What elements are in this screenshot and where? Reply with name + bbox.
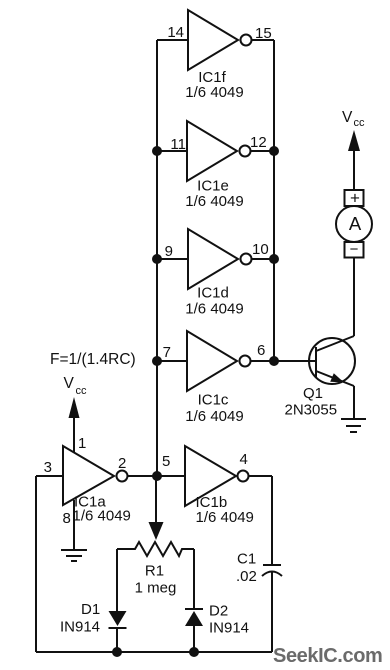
wire IC1b output down to C1 — [271, 476, 273, 565]
node input IC1c — [152, 356, 162, 366]
node input IC1d — [152, 254, 162, 264]
power Vcc at IC1a pin 1 — [64, 375, 88, 452]
node output IC1d — [269, 254, 279, 264]
svg-text:SeekIC.com: SeekIC.com — [273, 645, 382, 667]
wire Q1 collector up to motor — [353, 258, 355, 337]
svg-text:D2: D2 — [209, 603, 228, 620]
wire R1 right to D2 — [193, 549, 195, 609]
motor / ammeter A with + and - terminals — [336, 189, 372, 259]
svg-text:.02: .02 — [236, 568, 257, 585]
ground below Q1 — [341, 419, 366, 432]
svg-text:R1: R1 — [145, 563, 164, 580]
svg-text:10: 10 — [252, 241, 269, 258]
svg-text:4: 4 — [240, 451, 248, 468]
svg-text:IN914: IN914 — [60, 619, 100, 636]
wire R1 left to D1 — [116, 549, 118, 611]
svg-text:14: 14 — [167, 24, 184, 41]
svg-text:12: 12 — [250, 134, 267, 151]
capacitor C1 — [236, 551, 282, 586]
svg-text:9: 9 — [165, 243, 173, 260]
svg-text:F=1/(1.4RC): F=1/(1.4RC) — [50, 351, 136, 368]
svg-text:1 meg: 1 meg — [135, 580, 177, 597]
inverter IC1e — [157, 121, 274, 210]
svg-text:1/6 4049: 1/6 4049 — [196, 509, 254, 526]
svg-text:1/6 4049: 1/6 4049 — [185, 193, 243, 210]
svg-text:+: + — [350, 189, 360, 208]
svg-text:11: 11 — [170, 136, 186, 153]
svg-text:V: V — [64, 375, 75, 392]
inverter IC1b — [157, 446, 272, 526]
svg-text:15: 15 — [255, 25, 272, 42]
transistor Q1 — [285, 336, 356, 419]
inverter IC1a — [36, 435, 157, 527]
svg-text:IN914: IN914 — [209, 620, 249, 637]
diode D1 — [60, 601, 127, 636]
potentiometer wiper arrow — [149, 476, 164, 540]
svg-text:A: A — [349, 213, 362, 234]
wire bottom rail — [36, 651, 272, 653]
wire D1 to bottom rail — [116, 628, 118, 652]
svg-text:5: 5 — [162, 453, 170, 470]
svg-text:7: 7 — [163, 344, 171, 361]
svg-text:cc: cc — [354, 117, 366, 129]
diode D2 — [185, 603, 249, 637]
svg-text:−: − — [350, 241, 359, 258]
svg-text:2: 2 — [118, 455, 126, 472]
inverter IC1d — [157, 229, 274, 318]
node output IC1e — [269, 146, 279, 156]
svg-text:D1: D1 — [81, 601, 100, 618]
resistor R1 — [117, 542, 194, 597]
power Vcc top right — [342, 109, 365, 190]
svg-text:cc: cc — [76, 385, 88, 397]
svg-text:1/6 4049: 1/6 4049 — [185, 301, 243, 318]
svg-text:C1: C1 — [237, 551, 256, 568]
inverter IC1c — [157, 331, 316, 425]
wire C1 down to bottom rail — [271, 572, 273, 652]
svg-text:IC1c: IC1c — [198, 392, 229, 409]
wire left bus vertical — [156, 40, 158, 476]
svg-text:6: 6 — [257, 342, 265, 359]
svg-text:IC1e: IC1e — [197, 178, 229, 195]
svg-text:1/6 4049: 1/6 4049 — [73, 508, 131, 525]
node IC1a output / IC1b input / wiper — [152, 471, 162, 481]
node D1 bottom — [112, 647, 122, 657]
svg-text:3: 3 — [44, 459, 52, 476]
svg-text:Q1: Q1 — [303, 385, 323, 402]
svg-text:8: 8 — [63, 510, 71, 527]
svg-text:2N3055: 2N3055 — [285, 402, 338, 419]
node input IC1e — [152, 146, 162, 156]
wire Q1 emitter down to ground — [353, 386, 355, 419]
svg-text:V: V — [342, 109, 353, 126]
inverter IC1f — [157, 10, 274, 101]
ground below IC1a — [61, 500, 87, 561]
node D2 bottom — [189, 647, 199, 657]
svg-text:IC1d: IC1d — [197, 285, 229, 302]
svg-text:1/6 4049: 1/6 4049 — [185, 408, 243, 425]
svg-text:1: 1 — [78, 435, 86, 452]
svg-text:1/6 4049: 1/6 4049 — [185, 84, 243, 101]
node output IC1c to Q1 base — [269, 356, 279, 366]
wire D2 to bottom rail — [193, 626, 195, 652]
wire right bus vertical — [273, 40, 275, 361]
wire IC1a pin3 left down to bottom rail — [35, 476, 37, 652]
